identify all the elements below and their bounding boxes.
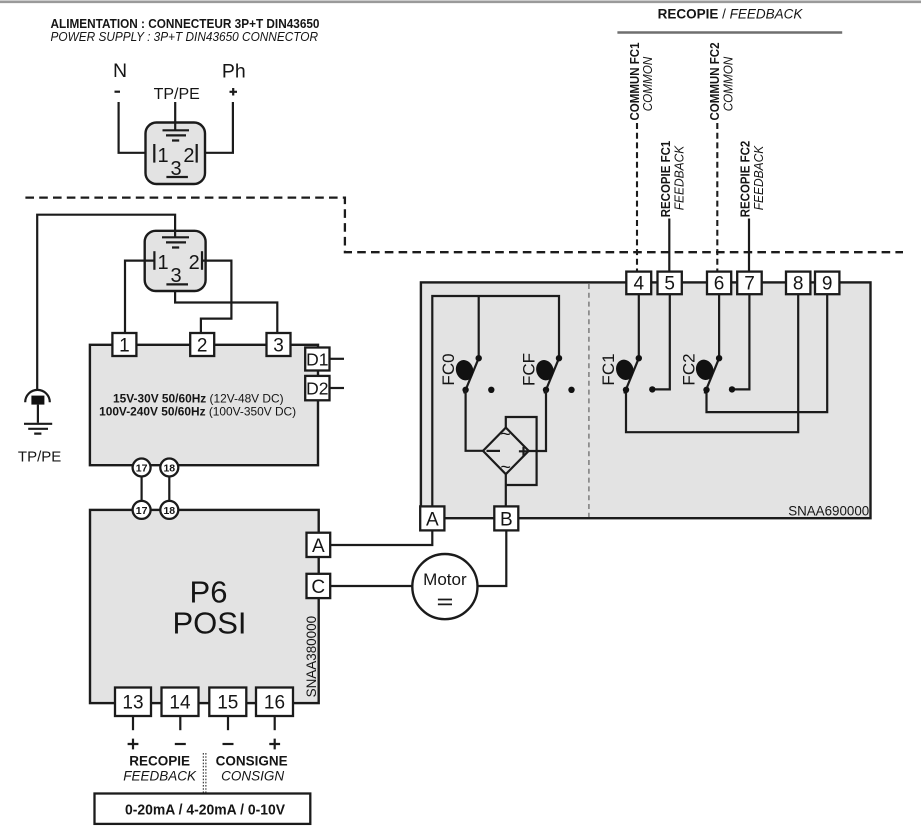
- svg-text:~: ~: [500, 457, 511, 477]
- svg-text:POSI: POSI: [172, 606, 246, 641]
- svg-text:FCF: FCF: [519, 353, 538, 386]
- svg-text:15: 15: [217, 693, 238, 714]
- connector X1 pin 3 underline: [166, 176, 188, 178]
- svg-text:1: 1: [158, 252, 169, 274]
- svg-text:Ph: Ph: [222, 61, 246, 83]
- svg-text:16: 16: [264, 693, 285, 714]
- svg-text:SNAA690000: SNAA690000: [788, 504, 869, 519]
- plus sign under Ph: [230, 88, 238, 96]
- terminal circle 18 bottom: [160, 501, 178, 519]
- wire Ph to pin 2: [198, 102, 233, 153]
- terminal 9: [815, 272, 839, 295]
- stub under 13: [132, 716, 134, 730]
- connector X2 ground symbol: [162, 231, 189, 248]
- wire FC0 pole to rectifier: [466, 390, 484, 451]
- switch FC2: [705, 358, 720, 393]
- signal range box: [95, 794, 311, 824]
- wire X2 pin1 to terminal 1: [125, 261, 154, 333]
- svg-text:3: 3: [273, 335, 284, 356]
- svg-text:B: B: [500, 509, 513, 530]
- dashed lead COMMUN FC2: [716, 123, 718, 271]
- terminal 16: [256, 688, 293, 717]
- connector X1 pin 2 bar: [196, 144, 198, 163]
- terminal B of switch module: [494, 506, 518, 530]
- svg-text:A: A: [426, 509, 439, 530]
- svg-text:FC1: FC1: [599, 353, 618, 385]
- terminal 7: [737, 272, 762, 295]
- connector X1 ground symbol: [163, 102, 190, 141]
- svg-text:D1: D1: [306, 349, 328, 369]
- wire link 18: [168, 476, 170, 502]
- rectifier plus: [519, 447, 528, 456]
- rectifier minus: [487, 450, 501, 452]
- wire X2 pin2 to terminal 2: [201, 261, 232, 333]
- switch FC0: [464, 358, 479, 393]
- terminal 13: [115, 688, 151, 717]
- svg-text:2: 2: [197, 335, 208, 356]
- svg-text:17: 17: [136, 462, 148, 474]
- stub under 15: [227, 716, 229, 730]
- wire terminal4 to FC1 top: [638, 294, 640, 355]
- rectifier bypass wire: [506, 417, 537, 485]
- svg-text:P6: P6: [190, 574, 228, 609]
- dashed lead COMMUN FC1: [636, 123, 638, 271]
- svg-text:2: 2: [189, 252, 200, 274]
- motor M1: [412, 554, 477, 619]
- svg-text:0-20mA / 4-20mA / 0-10V: 0-20mA / 4-20mA / 0-10V: [125, 803, 285, 819]
- svg-text:N: N: [113, 60, 127, 82]
- terminal 6: [707, 272, 731, 295]
- svg-text:TP/PE: TP/PE: [154, 86, 200, 103]
- svg-text:13: 13: [122, 693, 143, 714]
- svg-text:100V-240V 50/60Hz (100V-350V D: 100V-240V 50/60Hz (100V-350V DC): [99, 404, 296, 418]
- wire A to motor box A: [330, 531, 432, 545]
- limit switch module box SNAA690000: [421, 282, 871, 518]
- terminal 14: [162, 688, 199, 717]
- connector X2 pin 1 bar: [153, 251, 155, 270]
- solid lead RECOPIE FC1: [668, 219, 670, 272]
- terminal D2: [305, 376, 329, 400]
- svg-text:C: C: [311, 577, 325, 598]
- wire B to motor: [478, 531, 507, 586]
- wire rectifier to B: [505, 474, 507, 506]
- terminal 8: [786, 272, 810, 295]
- terminal A of P6: [307, 533, 331, 557]
- stub under 16: [274, 716, 276, 730]
- terminal 2: [190, 333, 214, 356]
- minus sign under N: [115, 91, 121, 93]
- bridge rectifier: [483, 428, 529, 475]
- svg-text:CONSIGN: CONSIGN: [221, 768, 284, 783]
- dashed boundary line: [25, 198, 903, 253]
- wire terminal5 to FC1 aux contact: [652, 294, 670, 389]
- svg-text:RECOPIE / FEEDBACK: RECOPIE / FEEDBACK: [658, 7, 804, 22]
- svg-text:FEEDBACK: FEEDBACK: [671, 145, 686, 211]
- svg-text:14: 14: [169, 693, 191, 714]
- svg-text:TP/PE: TP/PE: [18, 449, 61, 466]
- svg-text:18: 18: [163, 505, 175, 517]
- page top border: [0, 0, 921, 3]
- wire C to motor: [330, 585, 412, 587]
- wire D2 stub: [330, 387, 345, 389]
- wire terminal8 to FC1 pole: [626, 294, 798, 432]
- svg-text:SNAA380000: SNAA380000: [304, 616, 319, 698]
- terminal circle 17 bottom: [133, 501, 151, 519]
- minus sign under 15: [223, 743, 234, 745]
- plus sign under 13: [128, 739, 139, 750]
- connector X2 pin 3 underline: [166, 283, 188, 285]
- connector X2 pin 2 bar: [201, 251, 203, 270]
- stub under 14: [179, 716, 181, 730]
- svg-text:17: 17: [136, 505, 148, 517]
- terminal 5: [658, 272, 682, 295]
- inner dashed separator: [588, 284, 590, 517]
- solid lead RECOPIE FC2: [748, 219, 750, 272]
- wire earth to connector X2 ground: [37, 215, 175, 391]
- svg-text:CONSIGNE: CONSIGNE: [216, 754, 288, 769]
- wire X2 pin3 to terminal 3: [175, 291, 277, 333]
- plus sign under 16: [269, 739, 280, 750]
- terminal circle 17 top: [133, 459, 151, 477]
- svg-text:COMMON: COMMON: [640, 56, 655, 111]
- connector X1 body: [146, 123, 206, 185]
- connector X2 body: [145, 231, 206, 291]
- svg-text:1: 1: [158, 145, 169, 167]
- svg-text:COMMON: COMMON: [721, 56, 736, 111]
- P6 POSI module box: [90, 510, 319, 703]
- svg-text:7: 7: [744, 274, 755, 295]
- switch FC1: [624, 358, 639, 393]
- svg-text:6: 6: [714, 274, 725, 295]
- svg-text:FEEDBACK: FEEDBACK: [123, 768, 197, 783]
- svg-text:8: 8: [793, 274, 804, 295]
- power supply module SNAA: [90, 345, 318, 465]
- svg-text:1: 1: [119, 335, 130, 356]
- wire terminal9 to FC2 pole: [707, 294, 828, 412]
- switch FCF: [545, 358, 560, 393]
- wire link 17: [141, 476, 143, 502]
- svg-text:POWER SUPPLY : 3P+T DIN43650 C: POWER SUPPLY : 3P+T DIN43650 CONNECTOR: [51, 30, 319, 44]
- svg-text:D2: D2: [306, 378, 328, 398]
- terminal A of switch module: [420, 506, 444, 530]
- dotted separator: [203, 753, 206, 793]
- terminal 15: [209, 688, 246, 717]
- svg-text:FEEDBACK: FEEDBACK: [751, 145, 766, 211]
- wire terminal7 to FC2 aux contact: [732, 294, 749, 389]
- svg-text:9: 9: [822, 274, 833, 295]
- wire terminal6 to FC2 top: [718, 294, 720, 355]
- svg-text:2: 2: [183, 145, 194, 167]
- svg-text:ALIMENTATION : CONNECTEUR 3P+T: ALIMENTATION : CONNECTEUR 3P+T DIN43650: [51, 16, 320, 31]
- wire drop to FC0 top: [478, 296, 480, 356]
- svg-text:18: 18: [163, 462, 175, 474]
- wire rail A to FC0 FCF tops: [432, 296, 559, 506]
- svg-text:A: A: [312, 536, 325, 557]
- terminal 3: [267, 333, 291, 356]
- terminal C of P6: [307, 574, 331, 598]
- earth symbol TP/PE: [25, 390, 50, 402]
- terminal D1: [305, 348, 329, 371]
- minus sign under 14: [175, 743, 186, 745]
- svg-text:Motor: Motor: [423, 570, 467, 589]
- wire D1 stub: [330, 358, 345, 360]
- terminal 4: [626, 272, 651, 295]
- svg-text:~: ~: [500, 424, 511, 444]
- connector X1 pin 1 bar: [153, 144, 155, 163]
- svg-text:4: 4: [634, 274, 645, 295]
- terminal circle 18 top: [160, 459, 178, 477]
- svg-text:RECOPIE: RECOPIE: [129, 754, 190, 769]
- header rule: [617, 31, 842, 33]
- svg-text:FC2: FC2: [679, 353, 698, 385]
- svg-text:FC0: FC0: [439, 353, 458, 385]
- terminal 1: [112, 333, 136, 356]
- svg-text:5: 5: [664, 274, 675, 295]
- wire N to pin 1: [119, 102, 153, 153]
- wire FCF pole to rectifier: [529, 390, 546, 451]
